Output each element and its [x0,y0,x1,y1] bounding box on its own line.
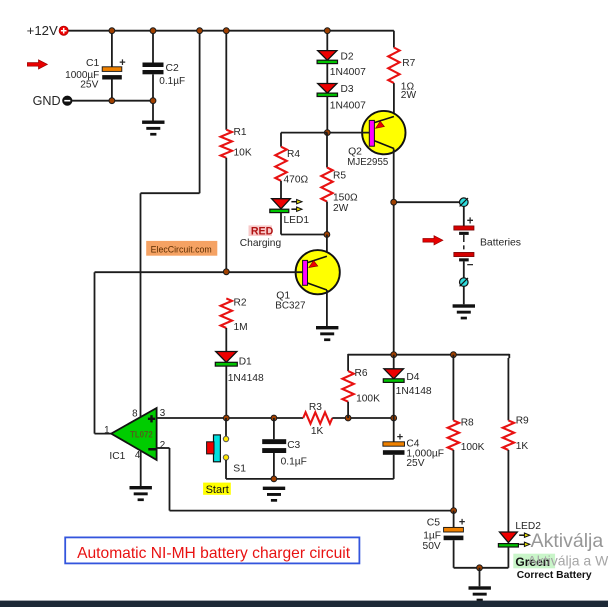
svg-text:+: + [397,432,403,444]
junction C4 top [391,415,397,421]
transistor Q2 emitter arrow [376,121,385,128]
svg-text:1N4007: 1N4007 [330,67,366,78]
wire C4 bottom [393,455,395,479]
label Green (green box) [513,554,555,569]
terminal +12V (red) [59,26,68,35]
junction R1 top [223,28,229,34]
wire Q2 collector vertical [393,149,395,355]
svg-text:D1: D1 [239,357,252,368]
svg-text:R2: R2 [234,297,247,308]
svg-text:0.1µF: 0.1µF [159,76,185,87]
arrow input (red) [27,60,47,69]
svg-text:RED: RED [251,225,274,237]
wire op-amp output feedback [95,433,112,435]
junction C2 bottom [150,98,156,104]
ground below C3 [263,487,285,490]
wire S1 top [225,418,227,437]
wire GND rail [72,100,153,102]
diode D2 [318,51,337,61]
svg-text:25V: 25V [406,458,424,469]
svg-text:D3: D3 [341,84,354,95]
svg-text:BC327: BC327 [275,301,305,312]
diode D3 [318,84,337,94]
arrow battery (red) [423,236,443,245]
svg-text:1µF: 1µF [423,530,441,541]
label ElecCircuit.com (orange box) [146,241,217,256]
svg-text:R7: R7 [402,58,415,69]
wire R8 bottom [452,450,454,511]
svg-text:+12V: +12V [27,23,58,38]
svg-text:ElecCircuit.com: ElecCircuit.com [151,244,212,254]
svg-text:1K: 1K [311,426,324,437]
svg-text:Batteries: Batteries [480,238,521,249]
wire pin3 net [157,417,304,419]
transistor Q2 base bar [369,120,374,146]
junction C1 bottom [109,98,115,104]
wire R7 top [393,31,395,48]
wire LED2 bottom [507,547,509,568]
junction Q1 emitter node [324,232,330,238]
wire R2 to D1 [225,328,227,352]
capacitor C1 plates [102,67,122,72]
wire D3 bottom [326,97,328,133]
transistor Q1 base bar [303,260,308,285]
switch S1 contacts [223,436,228,441]
svg-text:470Ω: 470Ω [284,175,309,186]
wire battery dashed [463,238,465,251]
battery cell 2 [454,252,474,256]
LED LED1 [272,199,291,209]
terminal battery - (cyan) [460,278,469,287]
wire D2-D3 [326,64,328,84]
wire C1 bottom [111,80,113,101]
svg-text:C2: C2 [166,63,180,74]
wire R1 bottom [225,158,227,272]
ground below battery [453,304,475,307]
resistor R2 [221,298,232,328]
svg-text:+: + [119,57,125,69]
svg-text:R5: R5 [333,170,346,181]
capacitor C2 plates [143,63,164,68]
wire R5 bottom [326,202,328,235]
junction riser top [197,28,203,34]
wire R4 to LED1 [280,181,282,199]
resistor R7 [388,48,399,84]
junction D2 top [324,28,330,34]
svg-text:R3: R3 [309,402,322,413]
svg-text:MJE2955: MJE2955 [347,157,388,168]
junction R8 top [451,352,457,358]
wire C2 bottom [152,74,154,120]
wire ground stub [479,568,481,587]
wire C2 top [152,31,154,63]
junction C3 bottom [271,476,277,482]
wire LED1 cathode [280,213,282,235]
transistor Q1 body [296,250,340,294]
svg-text:R4: R4 [287,149,300,160]
svg-text:1K: 1K [516,441,529,452]
svg-text:1M: 1M [234,322,248,333]
capacitor C4 plates [383,442,405,446]
junction C3 top [271,415,277,421]
wire battery top [463,207,465,226]
svg-text:D4: D4 [406,372,419,383]
wire R6 bottom [347,402,349,418]
wire R6 top [347,354,349,371]
svg-text:150Ω: 150Ω [333,192,358,203]
junction R1-R2 node [223,269,229,275]
junction D4 top [391,352,397,358]
svg-text:50V: 50V [423,541,441,552]
svg-text:0.1µF: 0.1µF [281,456,307,467]
wire C1 top [111,31,113,67]
junction C2 top [150,28,156,34]
svg-text:+: + [459,517,465,529]
svg-text:1N4148: 1N4148 [228,373,264,384]
capacitor C3 plates [262,439,286,444]
battery cell 1 [454,226,474,230]
svg-text:C1: C1 [86,58,100,69]
resistor R9 [503,420,514,450]
wire C3 top [273,418,275,439]
transistor Q1 emitter arrow [309,261,318,268]
wire D2 top [326,31,328,51]
junction battery branch [391,199,397,205]
junction C1 top [109,28,115,34]
label Start (yellow box) [203,483,231,495]
transistor Q1 collector line [308,283,327,290]
svg-text:TL072: TL072 [130,430,153,440]
svg-text:R6: R6 [355,368,368,379]
wire Q1 emitter vertical [326,235,328,257]
svg-text:−: − [467,259,474,271]
wire D1 bottom [225,366,227,418]
resistor R3 [303,412,332,423]
wire R1 top [225,31,227,130]
ground below C2 [142,121,164,124]
wire battery bottom [463,261,465,278]
svg-text:S1: S1 [233,463,246,474]
svg-text:Aktiválja a: Aktiválja a [531,530,608,552]
svg-text:Q2: Q2 [348,147,362,158]
transistor Q2 emitter line [374,117,394,123]
svg-text:R9: R9 [516,416,529,427]
svg-text:2W: 2W [333,203,349,214]
resistor R5 wire top [326,133,328,168]
wire pin8 riser [199,31,201,194]
wire R4 branch top [281,132,327,134]
diode D4 [384,369,404,379]
svg-text:Aktiválja a W: Aktiválja a W [527,553,608,569]
svg-text:C5: C5 [427,517,441,528]
svg-text:8: 8 [132,409,138,420]
capacitor C5 plates [444,527,464,532]
svg-text:1N4007: 1N4007 [330,100,366,111]
op-amp minus sign [148,448,156,451]
svg-text:2: 2 [160,440,165,451]
ground bottom right [469,586,491,589]
svg-text:D2: D2 [341,51,354,62]
svg-text:GND: GND [33,94,61,108]
resistor R5 [321,168,332,202]
svg-text:1: 1 [104,425,109,436]
wire Q2 base [327,132,369,134]
bottom bar [0,601,608,607]
svg-text:C3: C3 [287,440,300,451]
wire R9 top [508,354,510,358]
junction ground node [477,565,483,571]
wire C4 top [393,418,395,442]
resistor R8 [448,420,459,450]
wire D4 top [393,355,395,369]
svg-text:10K: 10K [234,148,252,159]
wire C3 bottom [273,453,275,479]
title box [65,537,359,563]
switch S1 body [214,435,221,462]
diode D1 [216,352,237,363]
LED LED2 arrows [519,534,524,536]
wire C5 bottom [453,540,455,568]
wire S1 bottom [225,460,227,479]
wire C5 top [453,511,455,528]
ground below Q1 [316,326,338,329]
junction D1-pin3 [223,415,229,421]
wire R9 bottom [507,450,509,532]
svg-text:2W: 2W [401,90,417,101]
LED LED1 arrows [291,201,296,203]
wire Q1 collector vertical [326,290,328,326]
wire D4 bottom [393,382,395,418]
op-amp plus sign [148,418,155,420]
svg-text:100K: 100K [356,394,380,405]
svg-text:Start: Start [206,484,229,496]
terminal battery + (cyan) [460,198,469,207]
junction Q2 base node [324,130,330,136]
svg-text:Charging: Charging [240,238,282,249]
wire battery to ground [463,286,465,304]
svg-text:100K: 100K [461,442,485,453]
svg-text:25V: 25V [80,80,98,91]
junction R8 bottom [451,508,457,514]
wire R3 to R6 node [332,417,393,419]
resistor R1 [221,130,232,158]
LED LED2 [500,532,518,543]
wire mid rail [348,354,509,356]
wire battery branch [394,201,460,203]
wire pin4 ground [140,451,142,487]
svg-text:R1: R1 [234,127,247,138]
junction R6 bottom [345,415,351,421]
wire pin2 net [157,447,170,449]
svg-text:Correct Battery: Correct Battery [517,570,592,581]
transistor Q2 body [362,111,405,154]
svg-text:LED1: LED1 [284,215,310,226]
svg-text:R8: R8 [461,417,474,428]
terminal GND (black) [63,96,72,105]
svg-text:1N4148: 1N4148 [396,386,432,397]
op-amp IC1 triangle [111,408,156,460]
resistor R6 [342,371,353,402]
transistor Q1 emitter line [308,256,327,262]
label RED (pink box) [249,225,272,236]
wire R8 top [452,355,454,421]
svg-text:IC1: IC1 [109,451,125,462]
wire R7 bottom to Q2 emitter [393,83,395,116]
ground below op-amp [130,486,152,489]
resistor R4 [275,147,286,181]
wire +12V top rail [68,30,394,32]
svg-text:Automatic NI-MH battery charge: Automatic NI-MH battery charger circuit [77,545,351,562]
transistor Q2 collector line [374,141,394,149]
